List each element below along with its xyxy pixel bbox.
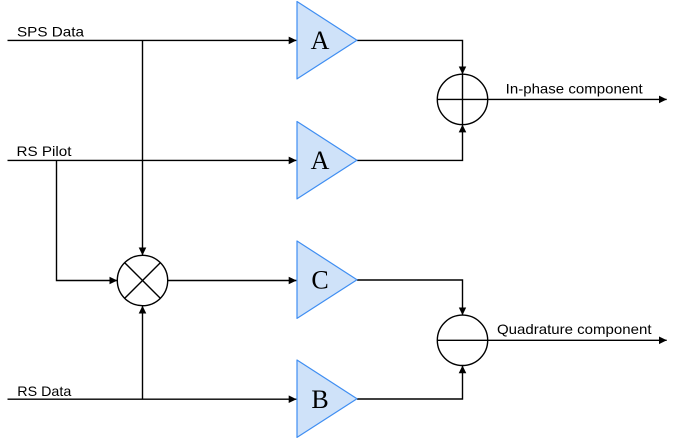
svg-text:Quadrature component: Quadrature component: [497, 321, 652, 337]
svg-text:RS Pilot: RS Pilot: [17, 143, 72, 159]
svg-text:In-phase component: In-phase component: [506, 80, 643, 96]
svg-text:RS Data: RS Data: [17, 383, 71, 399]
svg-text:SPS Data: SPS Data: [17, 23, 84, 39]
svg-text:C: C: [311, 265, 328, 294]
svg-text:A: A: [311, 146, 330, 175]
svg-text:B: B: [311, 385, 328, 414]
svg-text:A: A: [311, 26, 330, 55]
